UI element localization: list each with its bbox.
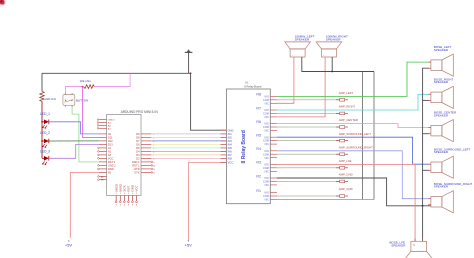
svg-text:AMP_LEFT: AMP_LEFT xyxy=(339,91,354,95)
svg-text:R8: R8 xyxy=(256,93,261,97)
svg-text:R7: R7 xyxy=(256,106,261,110)
svg-text:LED_3: LED_3 xyxy=(40,149,50,153)
svg-text:N/C: N/C xyxy=(265,143,270,146)
svg-text:AMP_GND: AMP_GND xyxy=(339,173,353,177)
relay R6 pins xyxy=(256,120,277,133)
svg-text:+5V: +5V xyxy=(185,243,193,248)
svg-text:VCC: VCC xyxy=(228,161,234,165)
wire R6 N/O to BOSE_CENTER (pink) xyxy=(277,124,429,128)
LED LED_1 xyxy=(40,112,50,129)
wire R3 N/O to BOSE_LFE (red) xyxy=(277,164,415,241)
svg-text:IN2: IN2 xyxy=(228,136,233,140)
svg-text:SPEAKER: SPEAKER xyxy=(434,48,449,52)
svg-text:4: 4 xyxy=(128,204,130,206)
wire minus bus drop A xyxy=(373,72,375,200)
speaker BOSE_LFE xyxy=(390,239,433,258)
svg-text:A6: A6 xyxy=(108,124,111,127)
svg-text:220 ohm: 220 ohm xyxy=(45,97,57,101)
svg-text:AMP_SURROUND_RIGHT: AMP_SURROUND_RIGHT xyxy=(339,145,373,149)
svg-text:-: - xyxy=(323,54,324,57)
svg-text:IN3: IN3 xyxy=(228,139,233,143)
svg-text:R1: R1 xyxy=(256,189,261,193)
node minus bus junction xyxy=(331,71,333,73)
svg-text:AMP_GND: AMP_GND xyxy=(339,187,353,191)
wire IN8 xyxy=(151,157,226,159)
resistor R2 10k ohm xyxy=(80,79,95,88)
svg-text:U1: U1 xyxy=(245,81,249,84)
fuse F8 AMP_GND xyxy=(286,187,353,197)
wire GND left drop to resistor R1 xyxy=(41,73,43,91)
svg-text:IN6: IN6 xyxy=(228,150,233,154)
svg-text:1: 1 xyxy=(124,193,126,195)
svg-text:1: 1 xyxy=(132,193,134,195)
wire bus stub BOSE_SURROUND_LEFT xyxy=(423,169,429,171)
svg-text:R3: R3 xyxy=(256,161,261,165)
speaker 100MW_LEFT xyxy=(285,35,315,57)
wire LED rail xyxy=(41,101,43,158)
wire 100MW_RIGHT + to R7 N/C (red) xyxy=(277,57,325,117)
svg-text:1: 1 xyxy=(128,193,130,195)
svg-text:BUTTON: BUTTON xyxy=(76,98,88,102)
fuse F4 AMP_SURROUND_LEFT xyxy=(286,132,371,142)
svg-text:N/C: N/C xyxy=(265,199,270,202)
power +5V right xyxy=(185,240,193,247)
wire COM R7 xyxy=(277,112,286,114)
pushbutton BUTTON xyxy=(63,93,88,106)
svg-text:8 Relay Board: 8 Relay Board xyxy=(241,130,247,163)
relay R3 pins xyxy=(256,161,277,174)
svg-text:N/C: N/C xyxy=(265,102,270,105)
svg-text:8 Relay Board: 8 Relay Board xyxy=(244,84,262,88)
wire button junction to U1 pin 2 (magenta) xyxy=(83,87,100,138)
svg-text:R4: R4 xyxy=(256,147,261,151)
speaker BOSE_SURROUND_RIGHT xyxy=(428,182,472,213)
svg-text:1: 1 xyxy=(136,193,138,195)
wire IN2 xyxy=(151,136,226,138)
node GND tee at ground symbol xyxy=(190,72,192,74)
svg-text:SPEAKER: SPEAKER xyxy=(434,150,449,154)
fuse F5 AMP_SURROUND_RIGHT xyxy=(286,145,373,155)
wire COM R6 xyxy=(277,126,286,128)
relay R2 pins xyxy=(256,174,277,187)
fuse F3 AMP_CENTER xyxy=(286,118,358,128)
svg-text:3: 3 xyxy=(124,204,126,206)
power +5V left xyxy=(65,240,73,247)
resistor R1 220 ohm xyxy=(40,91,57,101)
svg-text:LED_1: LED_1 xyxy=(40,112,50,116)
ground xyxy=(185,49,193,73)
wire IN1 xyxy=(151,133,226,135)
relay R1 pins xyxy=(256,189,277,202)
wire COM R5 xyxy=(277,140,286,142)
svg-text:AMP_CENTER: AMP_CENTER xyxy=(339,118,358,122)
wire GND right drop to relay board xyxy=(191,73,227,130)
svg-text:N/C: N/C xyxy=(265,130,270,133)
speaker 100MW_RIGHT xyxy=(316,35,348,57)
wire COM R1 xyxy=(277,195,286,197)
relay R7 pins xyxy=(256,106,277,119)
svg-text:A7: A7 xyxy=(108,127,111,130)
svg-text:A5: A5 xyxy=(101,179,104,182)
U2 left pins xyxy=(221,128,234,164)
wire LED_3 to U1 (purple) xyxy=(49,144,99,158)
svg-text:LED_2: LED_2 xyxy=(40,131,50,135)
wire R7 N/O to BOSE_RIGHT (cyan) xyxy=(277,94,429,110)
svg-text:10: 10 xyxy=(153,165,155,167)
relay R4 pins xyxy=(256,147,277,160)
speaker BOSE_RIGHT xyxy=(428,77,453,108)
U1 ISP header xyxy=(114,183,138,206)
svg-text:SPEAKER: SPEAKER xyxy=(434,80,449,84)
svg-text:R2: R2 xyxy=(256,174,261,178)
wire +5V to relay VCC xyxy=(188,162,226,240)
svg-text:IN7: IN7 xyxy=(228,153,233,157)
wire R1 N/C to minus drops xyxy=(277,199,374,201)
LED LED_2 xyxy=(40,131,50,148)
IC U2 8 Relay Board xyxy=(226,81,270,203)
wire R5 N/O to BOSE_SURROUND_LEFT (blue) xyxy=(277,137,429,164)
svg-text:AMP_RIGHT: AMP_RIGHT xyxy=(339,105,356,109)
wire R2 to GND rail (pink) xyxy=(94,73,130,86)
U1 pins A6 A7 xyxy=(98,175,107,181)
svg-text:GND: GND xyxy=(228,128,234,132)
wire IN4 xyxy=(151,143,226,145)
wire COM R2 xyxy=(277,180,286,182)
wire R4 N/O to BOSE_SURROUND_RIGHT (lavender) xyxy=(277,151,429,199)
svg-text:SPEAKER: SPEAKER xyxy=(434,185,449,189)
wire COM R4 xyxy=(277,153,286,155)
svg-text:9: 9 xyxy=(153,162,154,164)
svg-text:SPEAKER: SPEAKER xyxy=(434,114,449,118)
wire LED_2 to U1 (dark green) xyxy=(49,140,99,142)
fuse F6 AMP_LFE xyxy=(286,159,352,169)
wire IN6 xyxy=(151,150,226,152)
svg-text:AMP_SURROUND_LEFT: AMP_SURROUND_LEFT xyxy=(339,132,371,136)
fuse F1 AMP_LEFT xyxy=(286,91,354,101)
svg-text:N/C: N/C xyxy=(265,116,270,119)
U1 right pin column xyxy=(132,133,155,175)
wire button to R2 (pink) xyxy=(65,87,83,94)
svg-text:1: 1 xyxy=(116,193,118,195)
wire COM R3 xyxy=(277,167,286,169)
svg-text:R6: R6 xyxy=(256,120,261,124)
svg-text:IN1: IN1 xyxy=(228,132,233,136)
fuse F2 AMP_RIGHT xyxy=(286,105,355,115)
svg-text:-: - xyxy=(292,54,293,57)
wire IN7 xyxy=(151,154,226,156)
speaker BOSE_SURROUND_LEFT xyxy=(428,147,470,178)
svg-text:N/C: N/C xyxy=(265,184,270,187)
wire GND top rail xyxy=(42,72,191,74)
wire IN3 xyxy=(151,140,226,142)
wire LED_1 to U1 (blue) xyxy=(49,122,99,134)
svg-text:GTX: GTX xyxy=(134,171,139,174)
speaker BOSE_CENTER xyxy=(428,111,457,142)
corner mark xyxy=(0,0,6,6)
svg-text:SPEAKER: SPEAKER xyxy=(326,38,341,42)
svg-text:A5: A5 xyxy=(108,171,112,174)
wire +5V to U1 RAW xyxy=(70,172,99,237)
svg-text:GND 0: GND 0 xyxy=(108,120,115,122)
wire speaker ground bus xyxy=(423,68,429,241)
speaker BOSE_LEFT xyxy=(428,45,453,76)
wire bus stub BOSE_RIGHT xyxy=(423,99,429,101)
U1 left pin column xyxy=(98,133,117,175)
wire COM R8 xyxy=(277,99,286,101)
svg-text:1: 1 xyxy=(116,204,118,206)
svg-text:R5: R5 xyxy=(256,134,261,138)
wire button to U1 (green) xyxy=(72,107,99,162)
wire 100MW minus bus xyxy=(302,57,374,72)
svg-text:10k ohm: 10k ohm xyxy=(80,79,92,83)
svg-text:N/C: N/C xyxy=(265,170,270,173)
wire bus stub BOSE_CENTER xyxy=(423,133,429,135)
svg-text:AMP_LFE: AMP_LFE xyxy=(339,159,352,163)
svg-text:5: 5 xyxy=(132,204,134,206)
svg-text:1: 1 xyxy=(120,193,122,195)
wire 100MW_LEFT + to R8 N/C (red) xyxy=(277,57,294,103)
svg-text:IN8: IN8 xyxy=(228,157,233,161)
svg-text:SPEAKER: SPEAKER xyxy=(295,38,310,42)
relay R8 pins xyxy=(256,93,277,106)
svg-text:A4: A4 xyxy=(108,122,111,125)
node rail-LED2 xyxy=(41,140,43,142)
wire R2 N/O to speaker ground bus xyxy=(277,178,431,206)
svg-text:N/C: N/C xyxy=(265,157,270,160)
wire R8 N/O to BOSE_LEFT (green) xyxy=(277,62,429,96)
wire IN5 xyxy=(151,147,226,149)
LED LED_3 xyxy=(40,149,50,165)
svg-text:ARDUINO PRO MINI 5.0V: ARDUINO PRO MINI 5.0V xyxy=(121,110,159,114)
node bus-R2 junction xyxy=(422,205,424,207)
svg-text:VCC: VCC xyxy=(135,184,139,191)
svg-text:IN5: IN5 xyxy=(228,146,233,150)
svg-text:IN4: IN4 xyxy=(228,143,233,147)
fuse F7 AMP_GND xyxy=(286,173,353,183)
svg-text:2: 2 xyxy=(120,204,122,206)
svg-text:+5V: +5V xyxy=(65,243,73,248)
svg-text:12: 12 xyxy=(153,172,155,174)
wire minus bus drop B xyxy=(362,72,364,200)
relay R5 pins xyxy=(256,134,277,147)
node pink junction xyxy=(82,86,84,88)
node rail-LED1 xyxy=(41,121,43,123)
svg-text:6: 6 xyxy=(136,204,138,206)
svg-text:11: 11 xyxy=(153,169,155,171)
svg-text:SPEAKER: SPEAKER xyxy=(391,244,406,248)
U1 top-left pins GND0/A4/A6/A7 xyxy=(97,119,115,131)
svg-text:A4: A4 xyxy=(101,175,104,178)
IC U1 ARDUINO PRO MINI xyxy=(107,110,160,196)
